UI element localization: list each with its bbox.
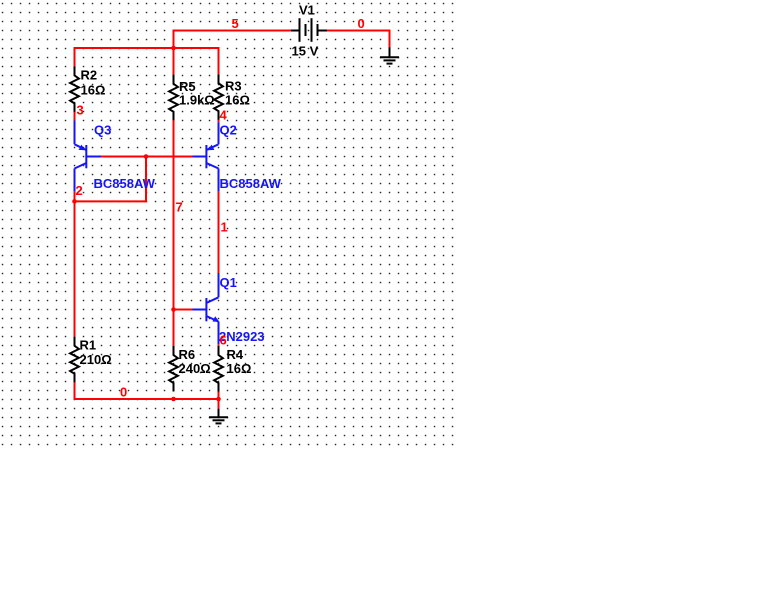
junction bottom rail R6 — [171, 397, 176, 402]
svg-text:7: 7 — [176, 200, 183, 215]
wire node3 R2 to Q3 emitter — [74, 111, 76, 120]
svg-text:6: 6 — [220, 333, 227, 348]
svg-text:Q3: Q3 — [94, 123, 111, 138]
junction Q1 base — [171, 307, 176, 312]
svg-text:240Ω: 240Ω — [179, 361, 211, 376]
battery V1 — [291, 18, 327, 42]
svg-text:15 V: 15 V — [292, 44, 319, 59]
resistor R4 — [214, 346, 223, 391]
transistor Q1 — [193, 273, 219, 344]
transistor Q2 emitter arrow — [208, 145, 215, 151]
svg-text:0: 0 — [358, 16, 365, 31]
wire node2 feedback loop — [75, 157, 147, 202]
svg-text:1.9kΩ: 1.9kΩ — [179, 93, 215, 108]
svg-text:R4: R4 — [227, 347, 244, 362]
wire node4 R3 to Q2 emitter — [218, 119, 220, 122]
wire node5 drop to R5 — [173, 48, 175, 75]
svg-text:Q2: Q2 — [220, 123, 237, 138]
transistor Q2 — [193, 122, 219, 191]
resistor R5 — [169, 75, 178, 121]
junction at R5 top — [171, 46, 176, 51]
junction base bus — [144, 154, 149, 159]
ground bottom — [209, 409, 228, 424]
wire node2 Q3 collector to R1 — [74, 191, 76, 337]
wire node0 battery to ground corner — [327, 31, 390, 48]
wire R4 bottom to ground rail — [218, 391, 220, 399]
svg-text:BC858AW: BC858AW — [94, 176, 156, 191]
svg-text:0: 0 — [120, 385, 127, 400]
svg-text:Q1: Q1 — [220, 275, 237, 290]
wire node5 top rail left — [174, 31, 292, 49]
svg-text:5: 5 — [232, 16, 239, 31]
ground top right — [380, 47, 399, 63]
svg-text:4: 4 — [220, 108, 228, 123]
svg-text:R6: R6 — [179, 347, 196, 362]
transistor Q3 — [75, 121, 102, 192]
svg-text:R3: R3 — [225, 79, 242, 94]
svg-text:16Ω: 16Ω — [225, 93, 250, 108]
wire node1 Q2 collector to Q1 collector — [218, 191, 220, 273]
svg-text:R2: R2 — [81, 68, 98, 83]
transistor Q3 emitter arrow — [79, 145, 86, 151]
resistor R6 — [169, 346, 178, 391]
wire node7 R5 bottom to R6 top — [173, 120, 175, 346]
svg-text:2: 2 — [76, 183, 83, 198]
wire ground drop bottom — [218, 399, 220, 409]
wire base bus Q3 to Q2 — [101, 156, 193, 158]
wire Q1 emitter to R4 — [218, 344, 220, 346]
svg-text:BC858AW: BC858AW — [220, 176, 282, 191]
svg-text:16Ω: 16Ω — [227, 361, 252, 376]
svg-text:1: 1 — [221, 220, 228, 235]
wire node5 second rail — [75, 48, 219, 74]
resistor R2 — [70, 66, 79, 112]
resistor R1 — [70, 337, 79, 382]
svg-text:R1: R1 — [80, 338, 97, 353]
svg-text:16Ω: 16Ω — [81, 83, 106, 98]
wire node0 bottom rail — [75, 381, 219, 399]
svg-text:V1: V1 — [299, 3, 315, 18]
svg-text:210Ω: 210Ω — [80, 352, 112, 367]
svg-text:3: 3 — [77, 103, 84, 118]
wire Q1 base lead — [174, 309, 193, 311]
resistor R3 — [214, 74, 223, 120]
junction at node2 loop — [72, 199, 77, 204]
junction bottom rail R4 — [216, 397, 221, 402]
transistor Q1 emitter arrow — [212, 316, 219, 322]
